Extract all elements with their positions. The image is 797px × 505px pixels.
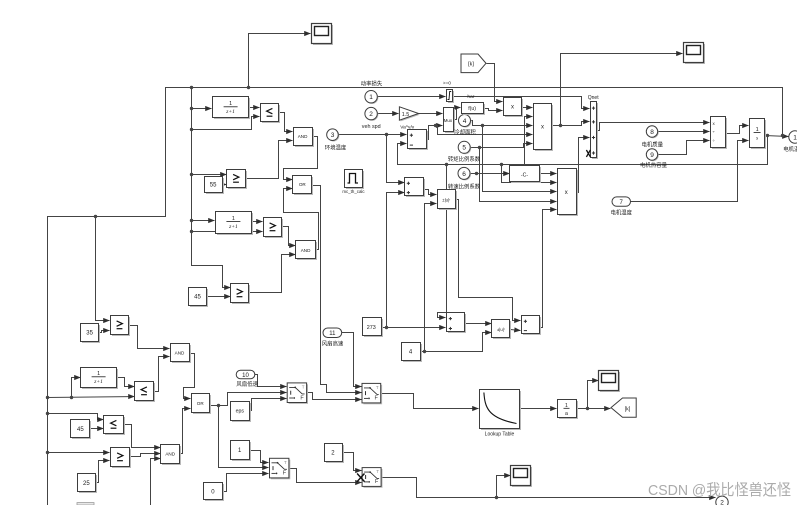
svg-text:35: 35 [86,331,93,337]
from tag [k] [461,54,486,73]
wire temp to TF3 [72,378,81,398]
relational LE3 &#8804; [104,416,126,436]
node port5 branch [478,146,481,149]
node out2 line [495,496,498,499]
outport 2 fan command [716,496,728,505]
wire AND3 to OR2 in1 [184,354,195,399]
wire port3 to Va sum in1 [339,134,407,136]
wire port7 to integrator ic [631,141,749,202]
switch Switch1 fan-low [287,383,308,404]
wire coeff block to product2 in1 [540,173,557,175]
constant 1 [231,441,252,462]
svg-text:T: T [376,385,379,390]
relational LE2 &#8804; [135,382,156,403]
svg-text:T: T [376,469,379,474]
inport 1 power-loss [365,91,378,104]
wire pow2 to sum-rad in2 [511,330,521,331]
svg-text:5: 5 [462,145,466,152]
svg-text:2: 2 [369,111,373,118]
wire branch to scope4 [561,54,683,126]
sum ambient+273 [405,178,426,198]
wire port6 to coeff block [471,173,510,175]
node top rail b [247,86,250,89]
wire sum-amb to pow1 [424,190,437,195]
wire port3 branch to sum-amb in1 [387,135,405,183]
svg-text:1.5: 1.5 [402,112,410,118]
relational GE4 &#8805; [111,316,131,337]
wire eps to switch1 in3 [250,399,287,411]
svg-text:AND: AND [301,248,311,253]
svg-text:风扇高速: 风扇高速 [322,339,344,347]
svg-text:273: 273 [367,325,376,331]
svg-text:z+1: z+1 [228,224,238,230]
divide Qnet/(m c) [711,117,728,150]
switch Switch2 fan-high [362,383,382,404]
wire port2 to gain [378,113,399,115]
wire product1 to big product in1 [522,107,533,109]
svg-text:2: 2 [720,500,724,505]
node rail t2 [190,128,193,131]
svg-text:电机温度: 电机温度 [783,145,797,153]
node integ out a [766,134,769,137]
wire LE2 to AND3 in2 [154,357,170,392]
svg-text:x: x [565,190,568,196]
wire sum-rad to product2 in5 [540,210,557,328]
wire const35 to GE4 [99,331,110,333]
wire const273 to sum-mot in2 [381,327,446,329]
wire port1 to saturation [378,96,446,98]
svg-text:s: s [756,136,758,142]
constant -C- coeff [510,166,542,184]
wire branch to scope3 [497,476,511,498]
svg-text:9: 9 [650,152,654,159]
wire GE1 to AND1 in2 [246,141,293,179]
wire mux to f(u) [453,108,461,120]
wire const1 to switch3 in1 [250,451,269,463]
svg-text:风扇低速: 风扇低速 [236,380,258,388]
node const273 branch [385,326,388,329]
logical AND3 [171,344,192,364]
wire temp to LE3 in1 [48,414,104,420]
constant 55 [205,177,225,195]
svg-text:T: T [302,384,305,389]
constant 273 [363,318,384,338]
wire switch2 to lookup table [381,394,479,409]
svg-text:6: 6 [462,171,466,178]
wire port4 branch to product2 in3 [483,126,557,192]
wire temp to LE2 in2 [48,397,135,398]
wire port10 to switch1 in1 [255,375,287,387]
inport 5 torque-coef [458,141,471,154]
svg-text:1: 1 [756,127,759,133]
scope Scope4 top-right [684,43,706,65]
svg-text:-C-: -C- [521,173,528,179]
svg-text:环境温度: 环境温度 [325,144,347,152]
svg-text:a: a [565,411,568,417]
svg-text:eps: eps [236,409,245,415]
switch Switch3 on-off [270,458,291,479]
svg-text:AND: AND [175,350,185,355]
scope Scope1 top-left [312,24,334,46]
node Va branch [434,124,437,127]
relational GE2 &#8805; [264,218,284,239]
wire OR2 to switch1 ctrl [210,393,287,406]
wire temp branch to sum-mot [438,165,447,318]
svg-text:AND: AND [165,451,175,456]
svg-text:1: 1 [369,94,373,101]
switch Switch4 output [362,468,382,488]
wire rail to GE1 in1 [192,174,227,176]
svg-text:转矩比例系数: 转矩比例系数 [448,155,481,163]
node port4 branch [481,124,484,127]
wire GE3 to AND2 in2 [249,255,296,293]
sum Va^v/v [408,130,429,151]
svg-text:11: 11 [329,331,336,337]
wire port5 to big product in5 [471,144,533,148]
gain 1.5 [399,107,419,122]
goto tag [k] [611,398,636,417]
svg-text:Qnet: Qnet [588,95,599,101]
svg-text:动率损失: 动率损失 [361,80,383,88]
integrator 1/s [750,119,767,150]
svg-text:3: 3 [331,132,335,139]
wire const4 to pow2 exp [421,333,492,352]
product P1 x [504,98,524,118]
wire const273 branch to sum-amb in2 [387,193,405,328]
wire AND1 to OR1 in1 [284,137,318,180]
svg-text:z+1: z+1 [93,379,103,385]
svg-text:z+1: z+1 [225,109,235,115]
svg-text:x: x [541,125,544,131]
constant 0 [204,483,225,502]
logical OR1 [293,176,314,196]
wire OR1 to switch2 ctrl [312,186,362,393]
svg-text:har: har [467,94,474,100]
wire GE2 to AND2 [283,227,296,246]
svg-text:转速比例系数: 转速比例系数 [448,182,481,190]
wire motor temp long feedback [398,136,768,165]
inport 4 cooling-area [459,115,472,128]
wire GE5 to AND4 in2 [130,454,161,457]
constant eps [231,402,252,423]
wire branch to scope2 [588,381,599,409]
sum Qnet adder [591,102,599,160]
wire rail to TF2 [192,220,215,222]
node top rail a [190,86,193,89]
wire pow1 to sum-rad in1 [456,200,521,321]
wire const55 to GE1 in2 [223,184,227,186]
node temp c1 [46,396,49,399]
wire port4 hook [471,121,533,126]
wire rail2 to GE4 [96,217,110,321]
node 1a out [586,407,589,410]
node rail t1 [190,107,193,110]
wire integrator to outport1 [765,136,789,137]
svg-text:Mux: Mux [444,118,453,123]
node port6 branch [475,172,478,175]
pulse-generator mc_th_calc [345,170,365,190]
wire lookup to 1/a [520,408,557,410]
constant 45b [71,420,92,440]
svg-text:f(u): f(u) [468,106,476,112]
wire switch1 to switch2 in3 [307,393,362,400]
wire motor-temp feedback top [48,88,783,505]
inport 2 veh-spd [365,107,378,120]
node rail t4 [190,219,193,222]
svg-text:x: x [511,105,514,111]
wire product2 to Qnet in3 [576,138,590,193]
partial block at bottom edge [77,503,94,505]
node bigx out [559,124,562,127]
svg-text:10: 10 [242,373,249,379]
constant 2 [325,444,345,464]
sum radiation diff [522,316,542,336]
node integ out b [781,134,784,137]
wire port8 to divide in2 [658,131,710,133]
svg-text:冷却面积: 冷却面积 [454,128,476,136]
math pow2 |u|^r [492,320,512,340]
logical OR2 [192,394,212,415]
svg-text:1: 1 [793,134,797,141]
node temp line a [500,163,503,166]
wire har to Qnet in1 [453,97,590,109]
wire Qnet to divide in1 [597,123,710,131]
wire Va branch to big product in4 [436,126,533,135]
wire rail to TF1 [192,108,212,110]
sum motor+273 [447,313,467,334]
wire sum-mot to pow2 [465,323,492,325]
wire left rail branch to comparator column [192,88,231,288]
math pow1 |u|^r [438,190,458,211]
svg-text:[k]: [k] [625,406,631,412]
node const4 branch [423,350,426,353]
svg-text:T: T [284,460,287,465]
lookup-table fan curve [480,390,522,431]
node mid rail [94,215,97,218]
wire coeff to big product in2 [525,117,533,166]
unconnected port X mark on Switch4 [357,474,364,482]
node temp c2 [70,396,73,399]
wire rail to GE2 in2 [192,231,263,233]
relational LE1 &#8804; [261,104,281,124]
node port3 branch [385,133,388,136]
unconnected port X mark on Qnet adder [586,150,590,157]
svg-text:电机质量: 电机质量 [642,141,664,149]
wire GE4 to AND3 [129,326,170,349]
gain 1/a [558,400,579,420]
inport 10 fan-low [236,370,255,379]
logical AND1 [294,128,315,148]
wire AND4 to OR2 in2 [180,409,191,454]
svg-text:45: 45 [77,427,84,433]
wire f(u) to product1 in2 [483,109,503,111]
relational GE1 &#8805; [227,170,248,190]
constant 4 [402,343,423,363]
wire port11 to switch2 in1 [342,333,362,387]
svg-text:1: 1 [229,101,232,107]
svg-text:1: 1 [97,371,100,377]
wire TF2 to GE2 [252,221,263,223]
wire rail to LE1 in2 [192,117,260,130]
wire temp branch to product2 in2 [502,165,557,183]
svg-text:45: 45 [194,295,201,301]
product P2 big x 5-in [534,104,554,152]
wire 1/a to goto k [577,408,611,410]
wire OR2 branch to switch3 ctrl [219,406,269,468]
outport 1 motor temperature [789,131,797,143]
relational GE3 &#8805; [231,284,251,305]
wire bottom external to AND4 in3 [151,459,161,505]
saturation >=0 [447,90,455,104]
svg-text:>=0: >=0 [443,80,451,85]
node temp c4 [46,451,49,454]
svg-text:±|u|ʳ: ±|u|ʳ [497,327,505,332]
svg-text:1: 1 [232,216,235,222]
wire const4 branch to pow1 exp [425,204,437,352]
wire TF1 to LE1 [249,107,260,109]
inport 3 ambient-temp [327,129,340,142]
svg-text:Va^v/v: Va^v/v [400,125,414,131]
constant 45a [189,288,209,308]
transfer-fcn TF3 1/(z+1) [81,368,119,390]
svg-text:4: 4 [463,118,467,125]
wire const0 to switch3 in3 [223,474,269,492]
svg-text:55: 55 [210,183,217,189]
svg-text:mc_th_calc: mc_th_calc [342,189,365,194]
fcn f(u) [462,103,486,116]
wire from-k to product1 in1 [487,64,503,102]
logical AND2 [296,241,318,261]
svg-text:电机温度: 电机温度 [611,209,633,217]
node temp c3 [46,412,49,415]
svg-text:[k]: [k] [468,62,474,68]
svg-text:veh spd: veh spd [362,124,381,130]
constant 35 [81,324,101,344]
svg-text:OR: OR [197,401,205,406]
wire TF3 to LE2 [117,378,135,387]
wire port5 branch to product2 in4 [480,148,557,202]
inport 9 heat-capacity [646,149,658,161]
logical AND4 [161,445,182,466]
wire const45a to GE3 [207,296,231,298]
wire switch4 to outport2 [382,478,716,498]
inport 8 motor-mass [646,126,658,138]
node temp line b [445,163,448,166]
wire LE3 to AND4 [124,425,161,448]
transfer-fcn TF2 1/(z+1) [216,212,254,236]
wire const25 to GE5 in2 [96,461,110,483]
wire const45b to LE3 in2 [90,428,104,430]
node rail t3 [190,173,193,176]
wire const2 to switch4 in1 [342,453,362,471]
svg-text:OR: OR [299,182,307,187]
constant 25 [78,474,98,494]
svg-text:CSDN @我比怪兽还怪: CSDN @我比怪兽还怪 [648,482,791,499]
svg-text:AND: AND [298,134,308,139]
wire Va out to mux in2 [427,126,443,140]
wire LE1 to AND1 [279,113,293,132]
inport 11 fan-high [323,328,342,338]
svg-text:电机热容量: 电机热容量 [640,161,668,169]
mux Mux [444,108,456,134]
wire temp to GE5 in1 [48,452,110,454]
wire port9 to divide in3 [658,141,710,155]
node OR2 out [217,404,220,407]
transfer-fcn TF1 1/(z+1) [213,97,251,120]
inport 7 motor-temp [612,197,631,206]
wire scope1 feed [249,34,311,88]
scope Scope2 near lookup [599,371,621,393]
wire divide to integrator [726,126,749,134]
svg-text:Lookup Table: Lookup Table [485,432,515,438]
wire switch3 to switch4 in3 [289,469,362,483]
wire gain to mux in1 [418,113,443,115]
wire AND2 to OR1 in2 [284,189,319,250]
scope Scope3 bottom [511,466,533,488]
svg-text:8: 8 [650,129,654,136]
svg-text:25: 25 [83,481,90,487]
product P3 x 5-in [558,169,579,217]
svg-text:±|u|ʳ: ±|u|ʳ [442,197,450,202]
node rail t5 [190,230,193,233]
relational GE5 &#8805; [111,448,132,469]
wire big product to Qnet in2 [552,122,590,126]
inport 6 speed-coef [458,167,471,180]
